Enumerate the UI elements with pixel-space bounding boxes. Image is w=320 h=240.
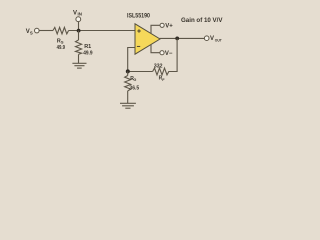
- terminal VS: [35, 28, 40, 33]
- label VS: [26, 29, 33, 35]
- wire RS to opamp + input: [69, 30, 136, 32]
- svg-text:V+: V+: [165, 24, 173, 30]
- svg-text:332: 332: [154, 63, 163, 69]
- svg-text:S: S: [61, 40, 64, 45]
- svg-text:49.9: 49.9: [57, 45, 65, 51]
- plus input mark: [137, 29, 141, 33]
- label VOUT: [210, 36, 222, 43]
- resistor R1: [76, 40, 82, 54]
- svg-text:R1: R1: [84, 44, 91, 50]
- wire opamp - input to node FB: [128, 48, 136, 72]
- label RS: [57, 38, 64, 44]
- terminal VIN: [76, 17, 81, 22]
- label VIN: [73, 10, 82, 16]
- svg-text:36.5: 36.5: [129, 86, 139, 92]
- wire node IN down to R1: [78, 31, 80, 41]
- wire VS to RS: [39, 30, 53, 32]
- wire opamp output to VOUT: [160, 37, 205, 39]
- node OUT junction: [175, 37, 179, 41]
- svg-text:S: S: [30, 31, 33, 36]
- wire R1 to ground: [78, 54, 80, 63]
- wire RF to node FB: [128, 71, 153, 73]
- svg-text:V: V: [73, 10, 77, 16]
- svg-text:IN: IN: [78, 12, 82, 17]
- ground G2: [120, 103, 136, 108]
- terminal V+: [160, 23, 164, 27]
- minus input mark: [137, 45, 140, 47]
- terminal VOUT: [204, 36, 209, 41]
- label RG: [130, 76, 136, 82]
- wire node FB down to RG: [127, 71, 129, 75]
- node FB junction: [126, 69, 130, 73]
- resistor RF: [153, 68, 170, 75]
- resistor RG: [125, 76, 131, 91]
- pin V- stub: [151, 45, 160, 53]
- wire VIN down to node IN: [78, 22, 80, 31]
- wire feedback from node OUT down: [170, 38, 177, 71]
- svg-text:ISL55190: ISL55190: [127, 14, 151, 20]
- wire RG to ground: [127, 91, 129, 103]
- op-amp U1: [135, 24, 160, 54]
- node IN junction: [77, 29, 81, 33]
- svg-text:OUT: OUT: [215, 38, 222, 43]
- resistor RS: [53, 27, 69, 34]
- svg-text:49.9: 49.9: [83, 50, 92, 56]
- ground G1: [72, 63, 86, 68]
- label RF: [159, 76, 166, 82]
- svg-text:V−: V−: [165, 51, 173, 57]
- terminal V-: [160, 51, 164, 55]
- svg-text:G: G: [133, 78, 136, 82]
- svg-text:Gain of 10 V/V: Gain of 10 V/V: [181, 18, 223, 24]
- svg-text:V: V: [210, 36, 214, 42]
- pin V+ stub: [151, 25, 160, 33]
